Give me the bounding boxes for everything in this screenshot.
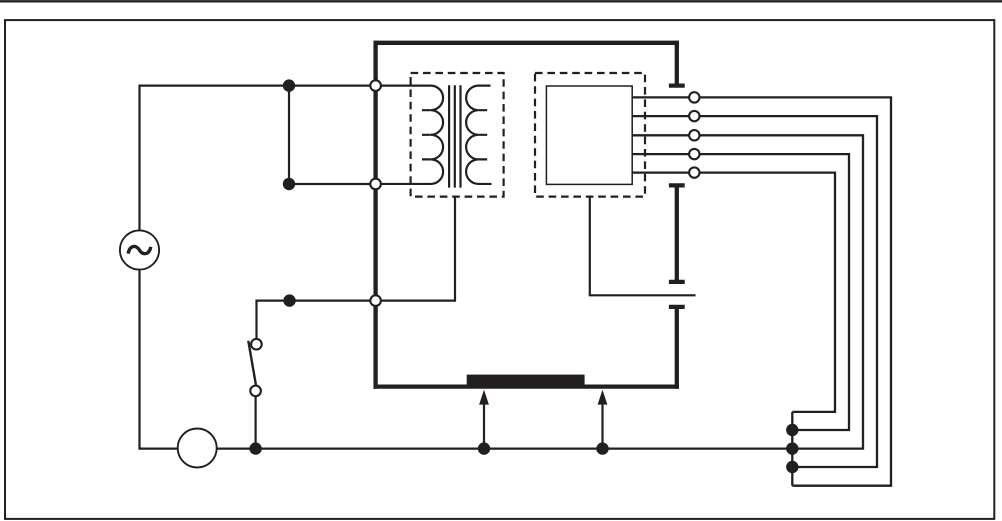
wire: AC source top to enclosure terminal (line L) xyxy=(140,86,376,231)
output wire 3 xyxy=(694,135,863,448)
junction arrow 1 to rail xyxy=(478,442,490,454)
wire: AC source bottom to motor xyxy=(140,269,179,449)
shield right wall lower segment xyxy=(675,309,679,389)
wire: switch bottom to rail xyxy=(255,397,257,449)
junction at line N branch xyxy=(283,178,295,190)
output bus vertical xyxy=(791,412,793,486)
wire: module lead through feedthrough xyxy=(590,196,696,295)
switch S1 arm xyxy=(248,341,256,385)
wire: transformer screen to enclosure terminal xyxy=(376,196,455,301)
shield right wall middle segment xyxy=(675,188,679,281)
wall end cap below feedthrough xyxy=(669,305,685,309)
arrow 2 shaft xyxy=(601,403,603,449)
wire: bottom common rail xyxy=(217,448,793,450)
output terminal 1 xyxy=(689,92,699,102)
arrow 2 head xyxy=(598,390,608,405)
junction bus upper xyxy=(786,424,798,436)
arrow 1 shaft xyxy=(483,403,485,449)
transformer secondary winding xyxy=(466,86,491,184)
ac source sine symbol xyxy=(128,246,151,253)
wall end cap above output pins xyxy=(669,83,685,87)
junction at line L / enclosure branch xyxy=(283,79,295,91)
shield enclosure top wall xyxy=(374,41,679,45)
junction bus middle (rail) xyxy=(786,442,798,454)
transformer core bars xyxy=(449,85,460,187)
module U1 dashed screen box xyxy=(535,73,645,197)
enclosure feedthrough terminal L xyxy=(370,80,381,91)
shield enclosure bottom wall xyxy=(374,384,679,388)
arrow 1 head xyxy=(479,390,489,405)
top rule xyxy=(0,0,1002,2)
wall end cap above feedthrough xyxy=(669,280,685,284)
switch S1 upper contact xyxy=(251,339,262,350)
IC block U1 xyxy=(546,86,632,184)
junction on switch branch xyxy=(283,294,295,306)
junction bus lower xyxy=(786,461,798,473)
wire: lower mains branch to enclosure terminal (line N) xyxy=(289,183,376,185)
pin wires 1-5 xyxy=(632,97,694,172)
secondary winding spur ticks xyxy=(478,110,487,159)
switch S1 lower contact xyxy=(250,386,261,397)
output wire 4 xyxy=(694,154,849,430)
junction switch to rail xyxy=(249,442,261,454)
shield right wall upper segment xyxy=(675,41,679,84)
output wire 1 xyxy=(694,97,891,485)
wire: switch branch top xyxy=(257,301,376,339)
junction arrow 2 to rail xyxy=(596,442,608,454)
output wire 5 xyxy=(694,173,835,412)
sense plate (black bar) xyxy=(467,375,585,387)
shield enclosure left wall xyxy=(373,41,377,389)
transformer T1 dashed screen box xyxy=(411,73,504,197)
enclosure feedthrough terminal N xyxy=(370,179,381,190)
enclosure feedthrough terminal screen xyxy=(370,295,381,306)
output terminal 4 xyxy=(689,149,699,159)
ac voltage source circle xyxy=(120,230,159,269)
transformer primary winding xyxy=(378,86,443,184)
output wire 2 xyxy=(694,116,877,467)
wall end cap below output pins xyxy=(669,183,685,187)
output terminal 3 xyxy=(689,130,699,140)
output terminal 2 xyxy=(689,111,699,121)
output terminal 5 xyxy=(689,167,699,177)
motor / meter circle xyxy=(178,429,217,468)
wire: link between junctions at x=289 xyxy=(288,86,290,184)
primary winding spur ticks xyxy=(422,110,431,159)
